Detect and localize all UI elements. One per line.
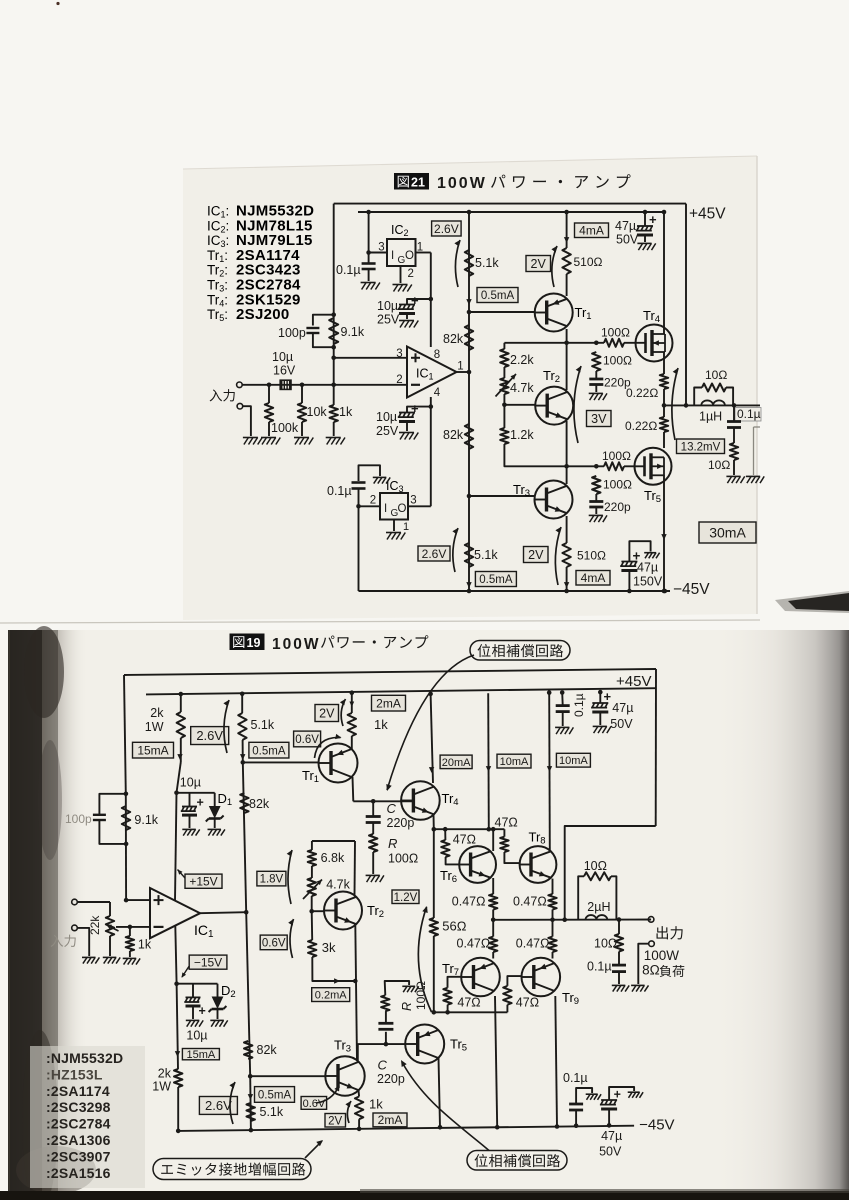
- svg-text:47µ: 47µ: [601, 1129, 622, 1143]
- svg-text:15mA: 15mA: [137, 744, 168, 758]
- capacitor 220p upper: [595, 371, 597, 379]
- svg-text:0.1µ: 0.1µ: [587, 960, 612, 974]
- svg-text:2k: 2k: [158, 1067, 172, 1081]
- svg-text:16V: 16V: [273, 364, 296, 378]
- resistor 0.22 lower: [663, 405, 665, 417]
- resistor 82k upper: [465, 325, 473, 350]
- svg-text:30mA: 30mA: [709, 525, 746, 541]
- svg-text:1W: 1W: [145, 720, 164, 734]
- output terminal 1: [648, 917, 654, 923]
- svg-text:220p: 220p: [377, 1072, 405, 1086]
- label 2V lower: [524, 547, 549, 563]
- svg-text:0.2mA: 0.2mA: [315, 990, 347, 1002]
- arrow 30mA: [661, 534, 666, 540]
- svg-text:2mA: 2mA: [376, 697, 401, 711]
- capacitor C 220p upper: [372, 801, 374, 816]
- node after coil: [732, 403, 737, 408]
- balloon 位相補償回路 top: [470, 641, 570, 661]
- wire +45V rail: [146, 688, 656, 694]
- wire column A lower: [246, 912, 250, 1076]
- svg-text:R: R: [388, 836, 397, 851]
- svg-text:10µ: 10µ: [377, 299, 398, 313]
- svg-text:220p: 220p: [387, 816, 415, 830]
- seam shadow right: [775, 591, 849, 613]
- resistor 510 upper: [562, 248, 570, 274]
- wire output line: [664, 404, 760, 406]
- wire Tr7 collector to rail: [495, 996, 497, 1127]
- IC2 box: [387, 239, 416, 266]
- svg-text:0.1µ: 0.1µ: [327, 484, 352, 498]
- svg-text:3: 3: [410, 495, 416, 507]
- wire Tr5 emitter to rail: [439, 1058, 441, 1127]
- arrow 0.6V mid arc: [290, 919, 294, 958]
- node gate line Tr1: [564, 341, 569, 346]
- wire Tr6 emitter 0.47: [492, 878, 494, 894]
- wire top outer line: [334, 203, 686, 205]
- input label 入力: [210, 389, 222, 401]
- svg-text::2SC3298: :2SC3298: [46, 1099, 111, 1115]
- resistor 2k 1W upper: [179, 692, 184, 697]
- resistor 5.1k lower: [465, 543, 473, 567]
- title 図19 100W power amp: [230, 634, 265, 651]
- label 1.2V: [392, 890, 419, 904]
- wire IC2 pin1 to IC1 pin8: [416, 252, 431, 254]
- svg-text:C: C: [378, 1058, 388, 1073]
- arrow 0.5mA down: [466, 299, 471, 305]
- svg-text:56Ω: 56Ω: [442, 919, 466, 934]
- svg-text:0.5mA: 0.5mA: [258, 1090, 292, 1102]
- transistor Tr4 MOSFET: [636, 325, 673, 362]
- label 0.6V Tr1: [294, 731, 321, 747]
- label 0.5mA upper: [477, 288, 518, 303]
- svg-text:10Ω: 10Ω: [594, 937, 617, 951]
- wire column A bottom: [249, 1076, 252, 1130]
- svg-text:4.7k: 4.7k: [510, 381, 534, 395]
- arrow 0.5mA upper: [240, 754, 245, 760]
- wire Tr1 base: [243, 761, 319, 763]
- transistor Tr9: [522, 958, 561, 997]
- wire IC1 pin3: [334, 357, 407, 359]
- capacitor 10u 25V upper: [429, 297, 434, 302]
- svg-text:5.1k: 5.1k: [251, 718, 275, 732]
- resistor 5.1k lower: [247, 1103, 255, 1121]
- transistor Tr5 MOSFET: [635, 448, 672, 485]
- arrow 1.2V arc: [418, 907, 431, 1012]
- wire load bracket: [638, 944, 648, 984]
- label 0.5mA lower: [475, 572, 516, 587]
- wire feedback vertical 9.1k: [125, 794, 127, 900]
- arrow 0.5mA lower: [248, 1094, 253, 1100]
- resistor 56: [433, 829, 435, 918]
- svg-text:1: 1: [457, 361, 463, 373]
- resistor R 100 upper: [369, 834, 377, 852]
- svg-text:47Ω: 47Ω: [453, 833, 476, 847]
- svg-text:100W: 100W: [272, 636, 321, 653]
- svg-text:IC1:: IC1:: [207, 204, 229, 220]
- arrow 15mA lower: [175, 1051, 180, 1057]
- svg-text:10µ: 10µ: [376, 410, 397, 424]
- IC3 box: [380, 493, 408, 520]
- svg-text:0.1µ: 0.1µ: [563, 1071, 588, 1085]
- node Tr3 base: [467, 494, 472, 499]
- capacitor 10u 16V input: [281, 381, 283, 389]
- svg-text:50V: 50V: [610, 717, 633, 731]
- transistor Tr7: [461, 958, 500, 997]
- svg-text:2.6V: 2.6V: [205, 1098, 232, 1113]
- node feedback bottom: [331, 345, 336, 350]
- resistor 5.1k upper: [240, 692, 245, 697]
- svg-text:+: +: [614, 1088, 621, 1102]
- svg-text:4: 4: [434, 387, 441, 399]
- arrow balloon to CR network: [387, 655, 474, 790]
- wire IC1 pin4 down: [430, 397, 432, 506]
- svg-text:2µH: 2µH: [587, 900, 610, 914]
- wire Tr2 base: [504, 404, 535, 406]
- svg-text:100Ω: 100Ω: [414, 981, 428, 1010]
- wire Tr2 base: [312, 910, 325, 912]
- wire Tr1 collector down: [352, 777, 355, 801]
- svg-text:4mA: 4mA: [579, 224, 604, 238]
- node Tr5 gate line: [564, 464, 569, 469]
- arrow 2V arc: [552, 246, 557, 287]
- transistor Tr1: [319, 744, 358, 783]
- resistor 0.47 3: [489, 937, 497, 952]
- svg-text:100Ω: 100Ω: [388, 852, 418, 866]
- input terminal lower: [237, 403, 243, 409]
- wire IC1 output: [200, 912, 246, 913]
- svg-text:5.1k: 5.1k: [260, 1105, 284, 1119]
- label 4mA lower: [576, 571, 610, 586]
- bottom black band: [0, 1191, 849, 1200]
- wire Tr7 Tr9 base feed line: [434, 1011, 508, 1013]
- label 2V Tr1: [315, 705, 339, 722]
- svg-text:−45V: −45V: [673, 581, 710, 598]
- wire +15V supply: [175, 793, 177, 901]
- resistor 0.47 1: [489, 894, 497, 910]
- input label 入力 faded: [51, 935, 63, 947]
- arrow 2V lower arc: [555, 527, 561, 585]
- capacitor 0.1u IC2: [368, 253, 370, 264]
- node 9.1k bottom: [124, 842, 129, 847]
- svg-text:10k: 10k: [307, 405, 328, 419]
- svg-text:220p: 220p: [604, 500, 631, 514]
- arrow 10mA 1: [486, 766, 491, 772]
- label 出力: [657, 926, 668, 939]
- capacitor 47u 150V: [627, 589, 632, 594]
- svg-text:−45V: −45V: [639, 1117, 674, 1134]
- svg-text:Tr3:: Tr3:: [207, 278, 228, 294]
- node rail 1k Tr3: [357, 1127, 362, 1132]
- capacitor 0.1u output: [612, 964, 626, 967]
- arrow 0.2mA: [334, 978, 340, 983]
- zener D2: [217, 984, 219, 997]
- capacitor 47u 50V rail: [598, 690, 603, 695]
- label 0.2mA: [312, 988, 350, 1002]
- label 10mA 1: [497, 754, 531, 768]
- parts list IC1-Tr5: [207, 203, 314, 324]
- node IC1 out: [467, 370, 472, 375]
- title 図21 100W power amp: [394, 173, 429, 190]
- svg-text::HZ153L: :HZ153L: [46, 1066, 103, 1082]
- svg-text:0.6V: 0.6V: [262, 938, 286, 950]
- wire IC1 pin8 up: [430, 253, 432, 348]
- svg-text::NJM5532D: :NJM5532D: [46, 1050, 123, 1066]
- resistor 47 base Tr6: [444, 829, 446, 840]
- svg-text:47Ω: 47Ω: [495, 816, 518, 830]
- capacitor 47u 50V: [643, 210, 648, 215]
- resistor 10 bypass output: [578, 876, 584, 919]
- label 2mA upper: [372, 695, 406, 711]
- transistor Tr5: [405, 1025, 444, 1064]
- svg-text:0.1µ: 0.1µ: [336, 263, 361, 277]
- capacitor 0.1u rail: [560, 690, 565, 695]
- transistor Tr3: [535, 481, 573, 519]
- wire -15V supply: [175, 926, 176, 984]
- ground input: [244, 438, 249, 445]
- svg-text:21: 21: [411, 176, 425, 190]
- svg-text:C: C: [387, 801, 397, 816]
- arrow balloon emitter: [305, 1141, 322, 1158]
- wire Tr4 base line: [353, 800, 413, 802]
- node rail 5.1k: [249, 1128, 254, 1133]
- svg-text::2SA1306: :2SA1306: [46, 1132, 111, 1148]
- svg-text:0.47Ω: 0.47Ω: [457, 937, 491, 951]
- svg-text:Tr5:: Tr5:: [207, 307, 228, 323]
- label 3V: [587, 411, 612, 427]
- svg-text:0.1µ: 0.1µ: [572, 693, 586, 717]
- svg-text:1k: 1k: [374, 717, 388, 732]
- svg-text:5.1k: 5.1k: [474, 548, 498, 562]
- svg-text:3k: 3k: [322, 940, 336, 955]
- transistor Tr4: [401, 781, 440, 820]
- capacitor 0.1u bottom: [574, 1123, 579, 1128]
- svg-text:3V: 3V: [591, 412, 607, 426]
- node 100ohm junction: [594, 341, 599, 346]
- svg-text:1W: 1W: [152, 1080, 171, 1094]
- svg-text:2V: 2V: [528, 548, 544, 562]
- label 0.6V Tr3: [301, 1097, 327, 1110]
- label 0.5mA lower: [255, 1087, 295, 1103]
- wire bottom rail: [359, 590, 671, 592]
- label -15V: [189, 955, 227, 969]
- resistor 0.47 4: [548, 937, 556, 952]
- arrow Tr3 arc: [316, 1086, 339, 1103]
- wire outer right vertical: [685, 204, 687, 406]
- arrow 4mA upper: [564, 237, 569, 243]
- svg-text:15mA: 15mA: [187, 1049, 216, 1061]
- svg-text:13.2mV: 13.2mV: [681, 441, 721, 453]
- svg-text:+: +: [197, 796, 204, 810]
- svg-text:0.6V: 0.6V: [295, 734, 319, 746]
- svg-text:2.6V: 2.6V: [196, 728, 223, 743]
- arrow balloon to CR lower: [402, 1062, 489, 1151]
- op-amp IC1: [407, 347, 457, 398]
- arrow 0.22 arc: [672, 368, 678, 440]
- resistor 4.7k variable: [503, 367, 505, 378]
- diode D2 network: [177, 983, 218, 985]
- resistor R 100 lower: [381, 995, 389, 1011]
- svg-text:Tr1:: Tr1:: [207, 248, 228, 264]
- node rail 5.1k: [467, 589, 472, 594]
- svg-text:47µ: 47µ: [615, 219, 636, 233]
- resistor 100 shunt lower: [592, 476, 600, 494]
- svg-text::2SC3907: :2SC3907: [46, 1148, 111, 1164]
- wire rail to IC2 input: [368, 212, 370, 253]
- arrow 4mA lower: [564, 582, 569, 588]
- svg-text:25V: 25V: [376, 424, 399, 438]
- svg-text:2.6V: 2.6V: [434, 222, 459, 236]
- label 1.8V: [257, 871, 286, 886]
- label 15mA upper: [133, 742, 174, 758]
- svg-text:1: 1: [403, 521, 409, 533]
- wire Tr4 source: [663, 352, 665, 374]
- op-amp IC1: [150, 888, 200, 938]
- node 0.2mA junction: [353, 979, 358, 984]
- capacitor 0.1u IC3: [359, 465, 381, 481]
- svg-text:10Ω: 10Ω: [708, 458, 730, 472]
- label 0.5mA upper: [249, 742, 289, 758]
- potentiometer 22k: [109, 902, 111, 916]
- wire feedback left vertical: [124, 675, 126, 794]
- resistor 10 to ground: [730, 443, 738, 460]
- svg-text:IC2:: IC2:: [207, 218, 229, 234]
- label 0.6V mid: [260, 935, 287, 950]
- wire Tr2 emitter to Tr5 base: [355, 924, 357, 1061]
- svg-text:0.6V: 0.6V: [303, 1098, 326, 1110]
- capacitor 100p: [99, 794, 126, 814]
- svg-text:2mA: 2mA: [378, 1113, 403, 1127]
- svg-text:0.47Ω: 0.47Ω: [513, 895, 547, 909]
- node Tr2 base: [502, 403, 507, 408]
- wire IC1 output: [457, 371, 470, 373]
- resistor 47 base Tr8: [503, 829, 505, 837]
- wire 6.8k chain top: [312, 840, 355, 842]
- wire Tr3 base: [250, 1075, 325, 1077]
- wire feedback to IC1 plus: [126, 899, 150, 901]
- wire -45V rail: [178, 1126, 634, 1131]
- svg-text:0.5mA: 0.5mA: [481, 290, 515, 302]
- bottom schematic paper piece: [8, 630, 849, 1192]
- svg-text:0.47Ω: 0.47Ω: [516, 937, 550, 951]
- svg-text:8Ω: 8Ω: [642, 963, 660, 978]
- svg-text:+45V: +45V: [689, 206, 726, 223]
- wire output node line: [493, 919, 651, 921]
- label 2mA lower: [373, 1113, 407, 1127]
- node 100ohm junction lower: [594, 464, 599, 469]
- resistor 9.1k feedback: [329, 318, 338, 344]
- capacitor 220p lower: [595, 494, 597, 501]
- transistor Tr6: [459, 846, 496, 883]
- svg-text:82k: 82k: [249, 797, 270, 811]
- node Tr1 base: [467, 310, 472, 315]
- svg-text:+: +: [604, 689, 612, 704]
- wire feedback top line: [124, 669, 656, 675]
- svg-text:+: +: [411, 401, 419, 416]
- resistor 82k upper: [240, 793, 248, 813]
- svg-text:10mA: 10mA: [500, 756, 529, 768]
- label 20mA: [440, 755, 472, 769]
- svg-text:+: +: [649, 212, 657, 227]
- svg-text:150V: 150V: [633, 575, 663, 589]
- svg-text:+: +: [411, 293, 419, 308]
- resistor 5.1k upper: [465, 250, 473, 276]
- top schematic paper piece: [183, 156, 757, 620]
- svg-text:100k: 100k: [271, 421, 299, 435]
- svg-text:1.2V: 1.2V: [394, 892, 418, 904]
- wire terminal2 to ground: [243, 406, 251, 436]
- arrow 20mA: [429, 767, 434, 773]
- wire IC3 pin2: [359, 505, 381, 507]
- resistor 100 gate Tr5: [604, 462, 624, 470]
- svg-text:10Ω: 10Ω: [584, 859, 607, 873]
- svg-text:19: 19: [247, 636, 261, 650]
- svg-text:1k: 1k: [339, 405, 353, 419]
- svg-text:25V: 25V: [377, 313, 400, 327]
- label 2V upper: [526, 256, 551, 272]
- wire gate line lower: [567, 465, 604, 467]
- node Tr5 rail: [663, 589, 668, 594]
- svg-text:0.1µ: 0.1µ: [737, 407, 761, 421]
- wire IC3 pin1 ground: [393, 520, 395, 532]
- wire input to IC1 pin2: [302, 384, 407, 386]
- wire wiper to IC1 minus: [116, 926, 150, 928]
- arrow 2.6V arc: [455, 240, 460, 287]
- resistor 82k lower: [244, 1041, 252, 1059]
- wire IC3 pin3 to IC1 pin4: [408, 505, 431, 507]
- svg-text:2: 2: [408, 268, 414, 280]
- label 10mA 2: [556, 753, 590, 767]
- node IC1 out: [244, 910, 249, 915]
- resistor 1.2k: [503, 405, 505, 428]
- wire Tr3 emitter 1k: [358, 1091, 361, 1097]
- input terminal 2: [72, 925, 78, 931]
- svg-text:10µ: 10µ: [186, 1029, 207, 1043]
- wire Tr8 emitter 0.47: [552, 879, 554, 894]
- svg-text:0.47Ω: 0.47Ω: [452, 895, 486, 909]
- resistor 47 base Tr9: [506, 1005, 508, 1013]
- svg-text:100W: 100W: [437, 175, 487, 192]
- svg-text:510Ω: 510Ω: [577, 549, 606, 563]
- arrow 0.5mA lower: [466, 582, 471, 588]
- svg-text:5.1k: 5.1k: [475, 256, 499, 270]
- arrow 1k arc: [347, 1101, 351, 1123]
- svg-text:4mA: 4mA: [581, 571, 606, 585]
- resistor 0.22 upper: [660, 374, 668, 389]
- svg-text:2k: 2k: [150, 706, 164, 720]
- inductor 2uH: [586, 915, 608, 920]
- svg-text:+15V: +15V: [189, 875, 217, 889]
- arrow 2V arc: [341, 699, 345, 726]
- svg-text:510Ω: 510Ω: [574, 255, 603, 269]
- capacitor C 220p lower: [385, 1032, 387, 1044]
- label 2V lower: [325, 1114, 346, 1128]
- svg-text:6.8k: 6.8k: [321, 851, 345, 865]
- wire V- column lower: [177, 984, 178, 1069]
- wire IC2 pin3: [369, 252, 387, 254]
- svg-text:R: R: [400, 1002, 414, 1011]
- wire main column: [468, 212, 470, 591]
- wire Tr column: [566, 212, 568, 248]
- svg-text:2: 2: [370, 495, 376, 507]
- resistor 2.2k: [503, 343, 505, 349]
- node feedback top: [331, 312, 336, 317]
- wire Tr4 emitter: [433, 814, 435, 829]
- arrow 15mA upper: [177, 754, 182, 760]
- ground load: [747, 476, 751, 483]
- label 2.6V upper: [191, 727, 229, 745]
- svg-text:−15V: −15V: [194, 956, 222, 970]
- left dark gradient band: [8, 630, 88, 1192]
